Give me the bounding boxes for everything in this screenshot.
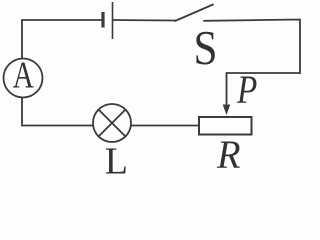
svg-text:L: L <box>105 140 128 174</box>
svg-text:R: R <box>216 132 240 174</box>
svg-text:A: A <box>13 54 35 96</box>
svg-text:P: P <box>236 67 257 112</box>
svg-text:S: S <box>194 20 218 75</box>
